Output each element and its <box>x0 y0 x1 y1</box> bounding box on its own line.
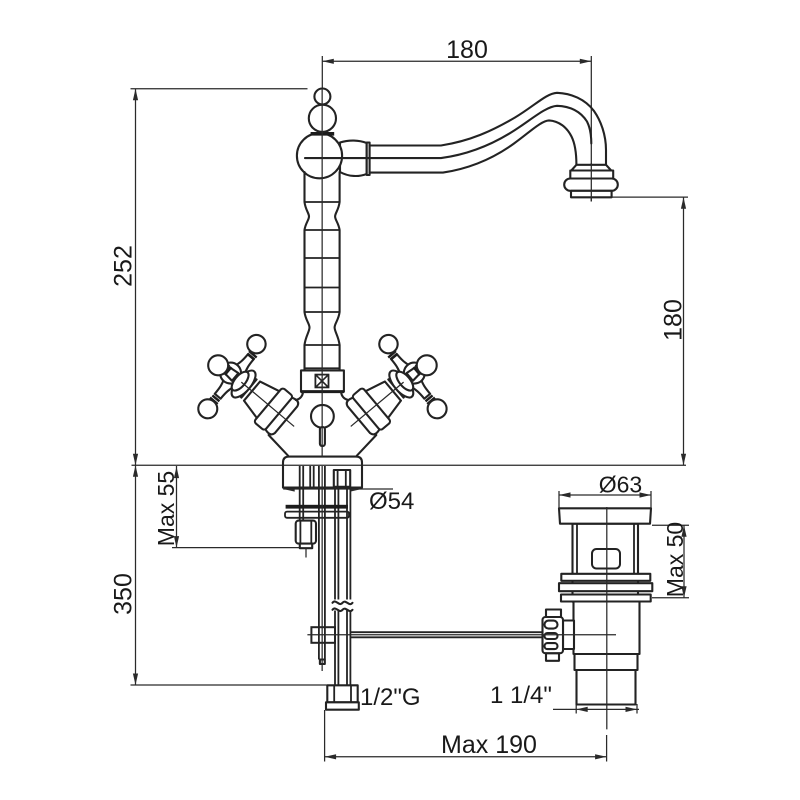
column bead lines <box>305 202 340 368</box>
svg-text:Max 50: Max 50 <box>662 522 688 597</box>
top large ball <box>309 105 336 132</box>
drain locknut band A <box>561 574 650 581</box>
drain tail middle <box>575 654 638 670</box>
half inch nut <box>327 685 357 702</box>
supply riser tube <box>335 487 350 686</box>
spout tube top line <box>370 93 606 165</box>
dimension D63 drain <box>559 472 651 508</box>
riser fitting in base <box>334 470 350 487</box>
dimension Max 50 right <box>652 522 689 598</box>
body right fillet <box>341 392 348 400</box>
linkage rod <box>351 632 544 637</box>
extension line over outlet <box>590 163 592 202</box>
spout tube bottom line <box>370 120 577 172</box>
svg-text:180: 180 <box>660 299 688 341</box>
pop-up knob stem <box>320 427 325 446</box>
valve collar <box>301 370 344 391</box>
drain tail lower <box>577 670 636 705</box>
rod axis line <box>321 466 323 671</box>
column right profile <box>335 172 340 370</box>
drain top flange <box>559 508 651 523</box>
drain neck body <box>573 524 639 602</box>
dimension 252 left <box>110 89 308 466</box>
pop-up pull rod <box>319 466 325 660</box>
drain axis line <box>606 507 608 729</box>
dimension 180 top <box>322 36 591 202</box>
drain locknut band B <box>559 583 652 591</box>
svg-text:Ø63: Ø63 <box>599 472 642 498</box>
svg-text:1 1/4": 1 1/4" <box>490 682 552 709</box>
spout outlet torus <box>564 179 618 191</box>
gasket <box>286 505 348 509</box>
spout outlet tip <box>571 191 612 198</box>
clamp body <box>543 617 564 653</box>
rod tip <box>320 660 325 665</box>
dimension Max 55 left <box>153 466 299 548</box>
clamp boss <box>563 621 574 650</box>
clamp top cap <box>546 610 561 618</box>
dimension Max 190 bottom <box>325 710 607 762</box>
faucet body sphere <box>297 133 342 178</box>
dimension 1 1/4 inch <box>490 682 639 714</box>
spout joint bulge <box>340 141 367 176</box>
linkage axis line <box>307 634 616 636</box>
top small ball <box>314 89 330 105</box>
washer plate <box>285 512 349 518</box>
svg-text:180: 180 <box>446 36 488 64</box>
svg-text:Max 55: Max 55 <box>153 471 179 546</box>
pop-up knob ball <box>311 405 334 428</box>
svg-text:1/2"G: 1/2"G <box>360 684 421 711</box>
dimension D54 base <box>283 486 414 515</box>
collar X box <box>315 375 328 388</box>
pipe break symbol <box>332 600 355 611</box>
sphere top dark collar <box>311 132 335 136</box>
mounting stud lines <box>300 466 314 521</box>
svg-text:350: 350 <box>110 573 138 615</box>
rod clamp collar <box>311 627 335 643</box>
clamp bottom cap <box>546 653 559 661</box>
drain overflow window <box>592 549 620 569</box>
right cross handle <box>320 321 466 466</box>
body left fillet <box>296 392 303 400</box>
column left profile <box>305 172 310 370</box>
svg-text:Ø54: Ø54 <box>369 488 414 515</box>
drain washer band C <box>561 595 651 602</box>
spout outlet ring <box>570 171 613 180</box>
spout joint face ring <box>367 143 370 176</box>
deck line over base <box>132 464 687 466</box>
spout outlet flare <box>571 165 611 171</box>
dimension 180 right <box>613 197 689 465</box>
svg-text:252: 252 <box>110 245 138 287</box>
base escutcheon <box>283 457 362 488</box>
left cross handle <box>179 321 325 466</box>
drain tail upper <box>574 602 640 655</box>
column axis line <box>321 89 323 458</box>
mounting nut <box>296 521 316 544</box>
body right flare <box>357 435 377 456</box>
svg-text:Max 190: Max 190 <box>441 731 537 759</box>
body left flare <box>269 435 289 456</box>
clamp slots <box>545 621 558 629</box>
spout tube middle line <box>305 106 591 158</box>
dimension 350 left <box>110 465 327 685</box>
